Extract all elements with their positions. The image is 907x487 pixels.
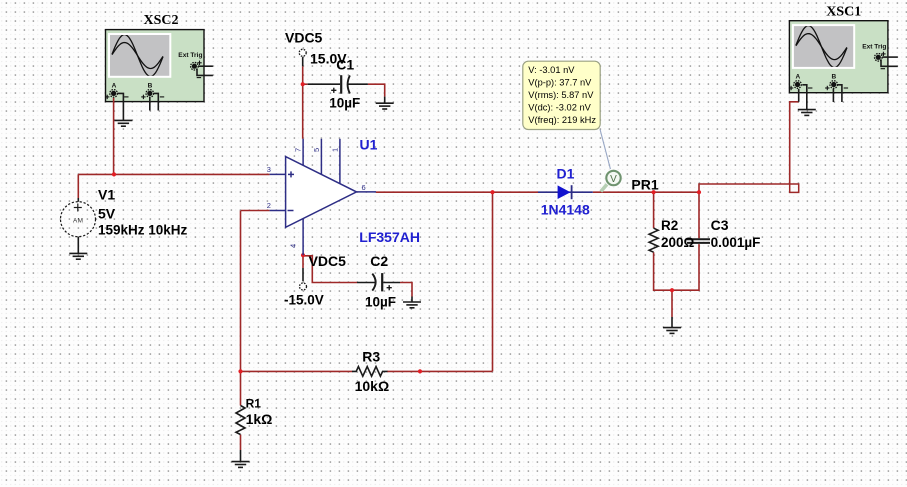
svg-text:VDC5: VDC5 xyxy=(285,29,323,45)
svg-text:R1: R1 xyxy=(246,397,262,411)
svg-text:0.001µF: 0.001µF xyxy=(711,235,761,250)
svg-text:159kHz 10kHz: 159kHz 10kHz xyxy=(98,222,188,237)
svg-text:V(freq): 219 kHz: V(freq): 219 kHz xyxy=(528,115,596,125)
svg-text:200Ω: 200Ω xyxy=(661,235,695,250)
svg-text:LF357AH: LF357AH xyxy=(359,229,420,245)
svg-text:R3: R3 xyxy=(362,349,380,365)
svg-text:1N4148: 1N4148 xyxy=(541,201,590,217)
svg-text:C2: C2 xyxy=(370,253,388,269)
svg-text:V(rms): 5.87 nV: V(rms): 5.87 nV xyxy=(528,90,594,100)
svg-text:PR1: PR1 xyxy=(631,176,658,192)
svg-text:VDC5: VDC5 xyxy=(309,253,347,269)
svg-text:4: 4 xyxy=(288,244,297,248)
svg-text:XSC2: XSC2 xyxy=(144,13,179,28)
svg-text:10µF: 10µF xyxy=(365,294,396,309)
svg-text:5V: 5V xyxy=(98,205,116,221)
svg-text:6: 6 xyxy=(362,183,366,192)
svg-text:3: 3 xyxy=(267,165,271,174)
svg-text:U1: U1 xyxy=(360,137,378,153)
svg-text:V(p-p): 37.7 nV: V(p-p): 37.7 nV xyxy=(528,77,592,87)
svg-text:2: 2 xyxy=(267,201,271,210)
svg-text:-15.0V: -15.0V xyxy=(284,293,324,308)
svg-text:V(dc): -3.02 nV: V(dc): -3.02 nV xyxy=(528,102,591,112)
svg-text:V1: V1 xyxy=(98,187,115,203)
svg-text:XSC1: XSC1 xyxy=(826,4,861,19)
svg-text:10µF: 10µF xyxy=(329,96,360,111)
svg-text:AM: AM xyxy=(73,217,83,224)
svg-text:1: 1 xyxy=(330,148,339,152)
svg-text:C1: C1 xyxy=(336,56,354,72)
svg-text:1kΩ: 1kΩ xyxy=(246,411,273,427)
svg-text:D1: D1 xyxy=(557,165,575,181)
svg-text:R2: R2 xyxy=(661,218,678,233)
svg-text:10kΩ: 10kΩ xyxy=(355,378,390,394)
svg-text:7: 7 xyxy=(294,148,303,152)
svg-text:V: -3.01 nV: V: -3.01 nV xyxy=(528,65,575,75)
svg-text:5: 5 xyxy=(312,148,321,152)
svg-text:C3: C3 xyxy=(711,217,729,233)
svg-text:V: V xyxy=(610,174,617,185)
